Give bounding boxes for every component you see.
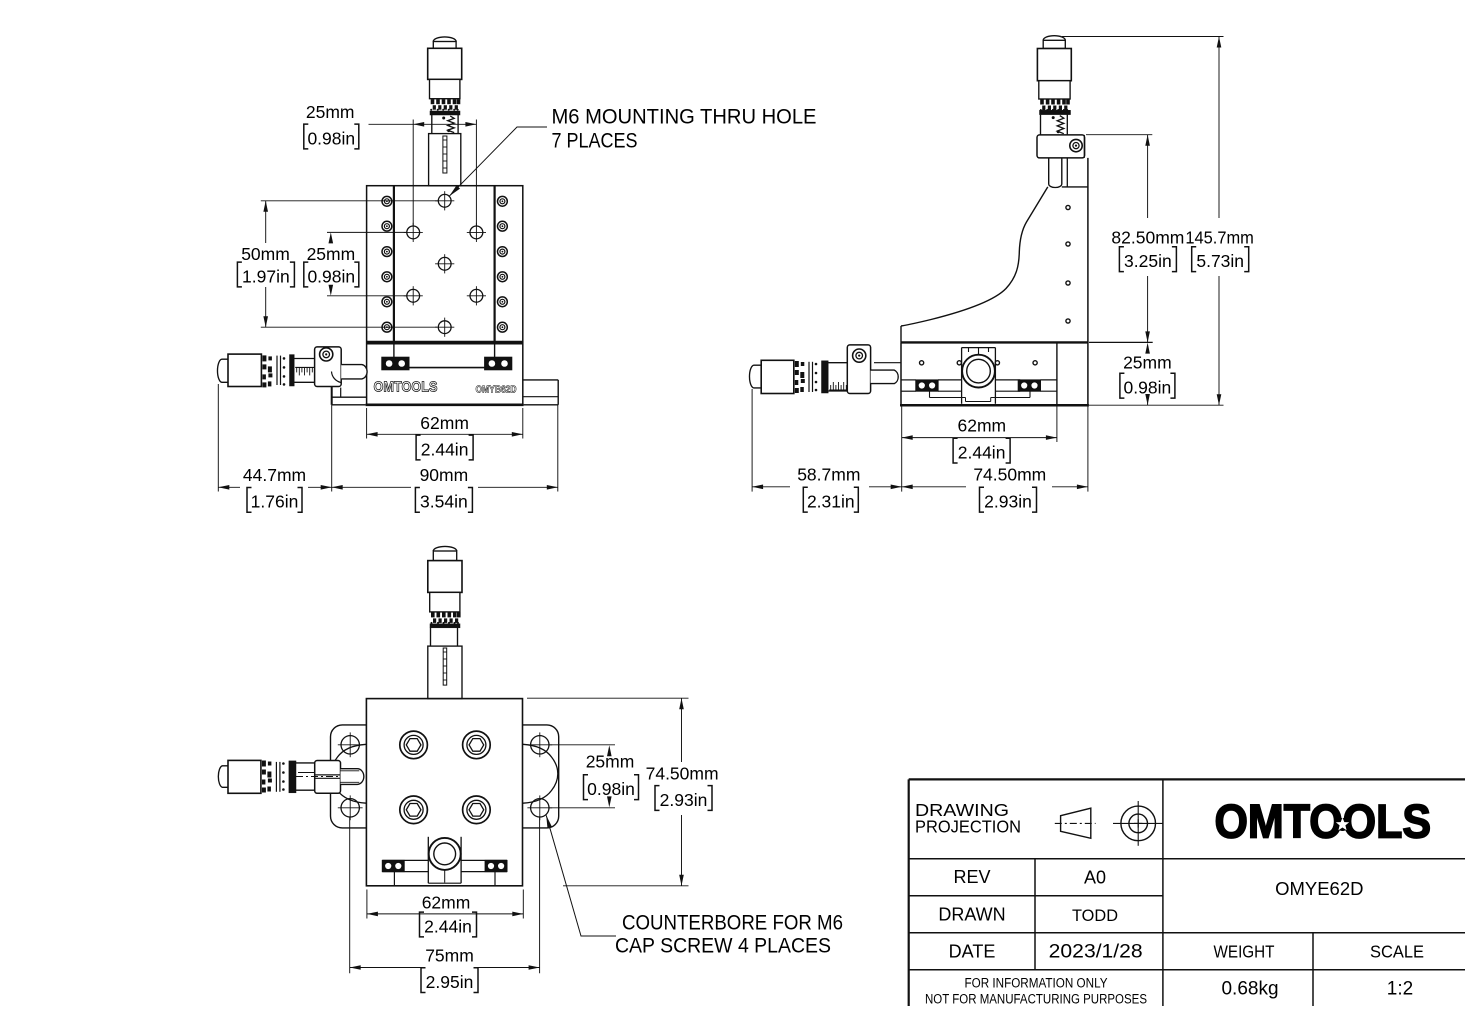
svg-text:3.54in: 3.54in [420, 492, 468, 512]
svg-text:0.98in: 0.98in [587, 779, 635, 799]
dimension 44.7mm (front) [218, 384, 331, 512]
svg-text:WEIGHT: WEIGHT [1214, 942, 1275, 962]
bottom view: 4 socket head cap screws [400, 731, 490, 823]
side view: micrometer clamp block [1037, 135, 1085, 158]
bottom view: bearing rail and blocks [382, 860, 507, 885]
svg-text:0.98in: 0.98in [307, 266, 355, 286]
bottom view: main square body [366, 699, 522, 886]
svg-text:2.93in: 2.93in [984, 492, 1032, 512]
svg-text:2.44in: 2.44in [421, 439, 469, 459]
svg-text:145.7mm: 145.7mm [1185, 228, 1254, 248]
svg-text:REV: REV [953, 867, 990, 887]
svg-text:TODD: TODD [1072, 906, 1118, 925]
dimension 74.50mm (bottom view) [527, 698, 719, 886]
dimension 145.7mm (side) [1062, 37, 1254, 406]
bottom view: horizontal micrometer [218, 760, 364, 793]
svg-text:74.50mm: 74.50mm [646, 764, 719, 784]
dimension 58.7mm (side) [752, 389, 902, 512]
bottom view: left flange with counterbores [331, 725, 367, 828]
svg-text:PROJECTION: PROJECTION [915, 816, 1021, 836]
dimension 62mm (front) [367, 408, 523, 460]
front view: right rail screws (6) [498, 196, 508, 332]
side view: stage body [900, 342, 1089, 405]
dimension 82.50mm (side) [1086, 135, 1184, 343]
svg-text:OMTOOLS: OMTOOLS [1215, 794, 1432, 847]
svg-text:OMTOOLS: OMTOOLS [374, 379, 438, 396]
leader: COUNTERBORE FOR M6 CAP SCREW 4 PLACES [546, 815, 843, 957]
svg-text:82.50mm: 82.50mm [1111, 228, 1184, 248]
side view: spindle below clamp [1049, 158, 1062, 188]
svg-text:0.98in: 0.98in [307, 128, 355, 148]
side view: vertical micrometer [1037, 36, 1071, 135]
svg-text:1.97in: 1.97in [242, 266, 290, 286]
side view: L-bracket with curved profile [901, 135, 1088, 343]
dimension 74.50mm (side) [902, 405, 1088, 512]
dimension 75mm (bottom view) [350, 818, 540, 993]
svg-text:2.95in: 2.95in [426, 972, 474, 992]
title block: projection cone symbol [1055, 808, 1096, 838]
svg-text:CAP SCREW 4 PLACES: CAP SCREW 4 PLACES [615, 934, 831, 958]
svg-text:2.31in: 2.31in [807, 492, 855, 512]
bottom view: vertical micrometer [428, 546, 462, 698]
svg-text:2.93in: 2.93in [660, 790, 708, 810]
side view: horizontal micrometer [749, 345, 901, 394]
svg-text:2023/1/28: 2023/1/28 [1049, 942, 1143, 963]
side view: bearing rail and blocks [901, 380, 1057, 402]
svg-text:25mm: 25mm [1123, 353, 1172, 373]
svg-text:25mm: 25mm [306, 102, 355, 122]
front view: M6 mounting thru holes (7) [404, 191, 486, 337]
dimension 62mm (side) [902, 405, 1057, 491]
dimension 62mm (bottom view) [367, 890, 523, 937]
svg-text:A0: A0 [1084, 868, 1106, 888]
svg-text:2.44in: 2.44in [424, 916, 472, 936]
svg-text:25mm: 25mm [307, 244, 356, 264]
svg-text:90mm: 90mm [420, 465, 469, 485]
title block: table grid [909, 779, 1465, 1006]
svg-text:DATE: DATE [949, 942, 996, 962]
svg-text:62mm: 62mm [422, 893, 471, 913]
front view: vertical micrometer (Y axis) [428, 37, 462, 186]
front view: horizontal micrometer (X axis) [217, 347, 367, 397]
bottom view: central leadscrew bearing [428, 837, 461, 883]
front view: moving stage band with bearings [366, 343, 524, 405]
svg-text:25mm: 25mm [586, 752, 635, 772]
front view: base plate right wing [523, 380, 558, 405]
svg-text:0.98in: 0.98in [1124, 378, 1172, 398]
svg-text:SCALE: SCALE [1370, 942, 1424, 962]
svg-text:0.68kg: 0.68kg [1221, 979, 1278, 1000]
svg-text:58.7mm: 58.7mm [797, 464, 860, 484]
svg-text:OMYE62D: OMYE62D [1275, 878, 1363, 899]
front view: left rail screws (6) [382, 196, 392, 332]
svg-text:OMYB62D: OMYB62D [476, 384, 517, 396]
title block: projection target symbol [1113, 801, 1163, 846]
front view: base plate left wing [332, 381, 367, 405]
side view: 4 holes in bracket plate [1066, 205, 1070, 323]
side view: small screw dots on stage [920, 361, 1038, 365]
svg-text:3.25in: 3.25in [1124, 251, 1172, 271]
svg-text:50mm: 50mm [241, 244, 290, 264]
svg-text:62mm: 62mm [957, 416, 1006, 436]
svg-text:62mm: 62mm [420, 413, 469, 433]
svg-text:5.73in: 5.73in [1196, 251, 1244, 271]
dimension 25mm top (front) [304, 102, 477, 226]
bottom view: right flange with counterbores (S profile) [523, 725, 559, 828]
svg-text:44.7mm: 44.7mm [243, 465, 306, 485]
dimension 90mm (front) [332, 405, 558, 513]
svg-text:DRAWN: DRAWN [938, 905, 1005, 925]
dimension 25mm (bottom view flange holes) [550, 745, 639, 808]
dimension 25mm (side) [1089, 342, 1175, 405]
svg-text:COUNTERBORE FOR M6: COUNTERBORE FOR M6 [622, 911, 843, 935]
svg-text:7 PLACES: 7 PLACES [552, 129, 638, 153]
svg-text:1:2: 1:2 [1387, 979, 1413, 1000]
dimension 50mm left (front) [237, 201, 438, 327]
svg-text:1.76in: 1.76in [251, 492, 299, 512]
title block: OMTOOLS logo [1215, 794, 1432, 847]
svg-text:NOT FOR MANUFACTURING PURPOSES: NOT FOR MANUFACTURING PURPOSES [925, 992, 1147, 1007]
bottom view: counterbore holes 4 places [338, 732, 552, 820]
svg-text:M6 MOUNTING THRU HOLE: M6 MOUNTING THRU HOLE [552, 105, 817, 129]
leader: M6 MOUNTING THRU HOLE 7 PLACES [449, 105, 816, 197]
svg-text:75mm: 75mm [425, 946, 474, 966]
dimension 25mm rows (front) [304, 232, 407, 295]
svg-text:2.44in: 2.44in [958, 442, 1006, 462]
svg-text:FOR INFORMATION ONLY: FOR INFORMATION ONLY [965, 976, 1108, 991]
svg-text:74.50mm: 74.50mm [973, 464, 1046, 484]
front view: main body plate [367, 186, 523, 343]
side view: central bearing housing with leadscrew bore [962, 348, 996, 404]
